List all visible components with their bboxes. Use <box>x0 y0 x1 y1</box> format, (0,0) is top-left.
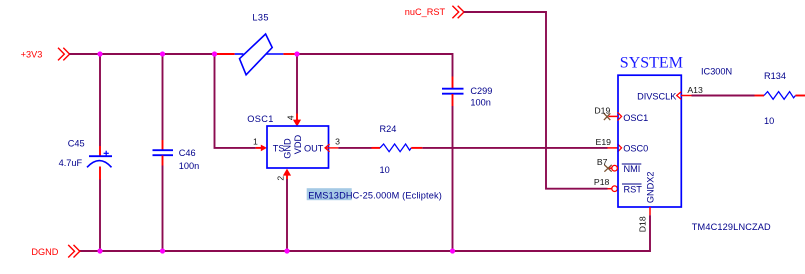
pin name RST with overline <box>622 184 642 194</box>
svg-text:+3V3: +3V3 <box>21 50 43 60</box>
pin D19 no-connect <box>604 112 622 120</box>
wire L35 junction to C299 corner <box>296 54 453 77</box>
svg-text:E19: E19 <box>596 137 612 147</box>
ferrite bead L35 <box>235 12 284 74</box>
junction dot DGND OSC1 <box>284 248 289 253</box>
pin 2 stub <box>283 169 291 176</box>
wire OSC1 GND to DGND <box>286 179 288 251</box>
capacitor C45 <box>59 138 112 179</box>
svg-text:SYSTEM: SYSTEM <box>620 55 683 72</box>
svg-text:DIVSCLK: DIVSCLK <box>637 91 677 101</box>
resistor R24 <box>372 124 423 175</box>
svg-text:NMI: NMI <box>624 164 641 174</box>
pin D18 stub <box>649 207 651 215</box>
svg-text:10: 10 <box>764 116 774 126</box>
pin name NMI with overline <box>622 164 642 174</box>
svg-text:IC300N: IC300N <box>701 67 732 77</box>
svg-text:3: 3 <box>335 137 340 147</box>
wire OSC1 OUT to R24 <box>338 147 371 149</box>
svg-text:OSC1: OSC1 <box>623 113 648 123</box>
junction dot at C45 <box>97 51 102 56</box>
svg-text:nuC_RST: nuC_RST <box>405 7 446 17</box>
wire R24 to SYSTEM OSC0 <box>422 147 607 149</box>
svg-text:EMS13DHC-25.000M (Ecliptek): EMS13DHC-25.000M (Ecliptek) <box>308 190 442 200</box>
pin 1 stub <box>256 147 262 149</box>
svg-text:VDD: VDD <box>293 134 303 154</box>
wire GNDX2 to DGND rail <box>80 215 650 251</box>
svg-text:B7: B7 <box>597 157 608 167</box>
wire +3V3 rail <box>69 53 216 55</box>
wire C46 to DGND <box>162 166 164 252</box>
svg-text:4: 4 <box>286 115 296 120</box>
wire +3V3 to C46 <box>162 54 164 140</box>
port DGND <box>68 245 80 258</box>
junction dot DGND C46 <box>160 248 165 253</box>
pin DIVSCLK arrow <box>677 92 682 100</box>
svg-text:GNDX2: GNDX2 <box>645 171 655 203</box>
svg-text:2: 2 <box>276 176 286 181</box>
svg-text:DGND: DGND <box>31 247 58 257</box>
port nuC_RST <box>452 6 464 19</box>
wire +3V3 to OSC1 TS <box>215 54 256 148</box>
wire C45 to DGND <box>99 180 101 252</box>
oscillator OSC1 <box>247 114 328 168</box>
IC SYSTEM box <box>618 75 681 207</box>
svg-text:D19: D19 <box>594 105 610 115</box>
svg-text:RST: RST <box>624 184 643 194</box>
svg-text:C299: C299 <box>470 86 492 96</box>
pin A13 stub <box>681 95 692 97</box>
value EMS13DHC <box>307 188 442 200</box>
pin P18 stub <box>608 188 612 190</box>
svg-text:P18: P18 <box>594 177 610 187</box>
svg-text:C46: C46 <box>179 148 196 158</box>
svg-text:A13: A13 <box>687 85 703 95</box>
wire C299 to DGND <box>452 106 454 251</box>
wire nuC_RST to RST <box>464 12 608 189</box>
svg-text:D18: D18 <box>637 216 647 232</box>
svg-text:GND: GND <box>283 138 293 159</box>
svg-text:OUT: OUT <box>304 143 324 153</box>
junction dot at VDD drop <box>294 51 299 56</box>
svg-text:OSC1: OSC1 <box>247 114 274 124</box>
svg-text:10: 10 <box>380 165 390 175</box>
resistor R134 <box>755 71 805 126</box>
svg-text:4.7uF: 4.7uF <box>59 158 83 168</box>
wire +3V3 to C45 <box>99 54 101 146</box>
wire L35 to VDD junction red lead <box>283 53 296 55</box>
power port +3V3 <box>58 48 70 61</box>
svg-text:100n: 100n <box>179 161 199 171</box>
svg-text:R24: R24 <box>380 124 397 134</box>
junction dot DGND C45 <box>97 248 102 253</box>
svg-text:R134: R134 <box>764 71 786 81</box>
pin 3 open arrow <box>325 144 330 152</box>
svg-text:TM4C129LNCZAD: TM4C129LNCZAD <box>692 222 771 232</box>
svg-text:1: 1 <box>253 136 258 146</box>
wire +3V3 to OSC1 VDD <box>296 54 298 114</box>
wire A13 to R134 <box>692 95 755 97</box>
svg-text:OSC0: OSC0 <box>623 143 648 153</box>
pin B7 no-connect <box>604 165 617 172</box>
junction dot DGND C299 <box>450 248 455 253</box>
capacitor C46 <box>153 140 200 171</box>
wire +3V3 to L35 red lead <box>216 53 235 55</box>
svg-text:100n: 100n <box>470 98 490 108</box>
junction dot at C46 <box>160 51 165 56</box>
capacitor C299 <box>442 77 492 108</box>
svg-text:L35: L35 <box>252 12 269 22</box>
pin E19 stub <box>608 147 619 149</box>
svg-text:C45: C45 <box>68 138 85 148</box>
junction dot at TS drop <box>212 51 217 56</box>
pin 4 stub <box>296 114 298 121</box>
